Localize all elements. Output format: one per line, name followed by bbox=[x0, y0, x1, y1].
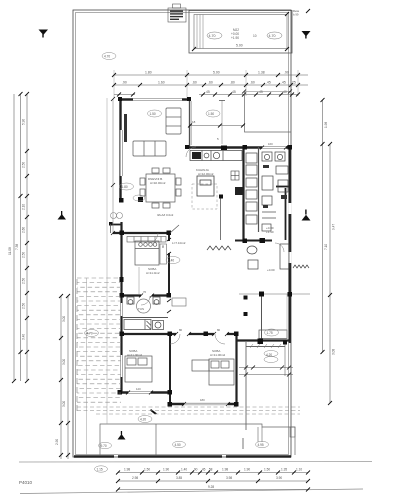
survey marker right-mid bbox=[302, 210, 311, 221]
svg-text:P4010: P4010 bbox=[19, 480, 33, 485]
svg-text:1.60: 1.60 bbox=[158, 81, 165, 85]
svg-text:A=11.0m2: A=11.0m2 bbox=[146, 271, 160, 275]
carport legend box bbox=[168, 4, 186, 22]
svg-text:3.40: 3.40 bbox=[22, 334, 26, 340]
pantry shelves bbox=[246, 153, 257, 224]
living left wall bbox=[119, 98, 121, 202]
svg-text:2.50: 2.50 bbox=[22, 162, 26, 168]
left lower wall bbox=[120, 222, 122, 393]
bottom margin line bbox=[20, 489, 363, 494]
carport corner ticks bbox=[192, 9, 310, 51]
svg-text:1.40: 1.40 bbox=[181, 468, 187, 472]
svg-text:1.90: 1.90 bbox=[163, 468, 169, 472]
west wall pier bbox=[120, 277, 124, 282]
bed1 door leaf bbox=[170, 225, 179, 233]
right room pillars bbox=[244, 296, 248, 300]
svg-text:1.75: 1.75 bbox=[267, 331, 273, 335]
svg-text:160: 160 bbox=[268, 142, 273, 146]
svg-text:3.98: 3.98 bbox=[226, 476, 232, 480]
bed3 right wall bbox=[235, 334, 237, 405]
svg-text:IZLAZ 0.0x2: IZLAZ 0.0x2 bbox=[157, 213, 174, 217]
svg-text:1.98: 1.98 bbox=[124, 468, 130, 472]
right room inner line bbox=[286, 294, 288, 340]
house right wall bbox=[289, 147, 291, 343]
svg-text:1.80: 1.80 bbox=[122, 185, 128, 189]
svg-text:9.70: 9.70 bbox=[101, 444, 107, 448]
svg-text:.45: .45 bbox=[205, 90, 210, 94]
svg-text:.45: .45 bbox=[258, 90, 263, 94]
oval labels scattered bbox=[85, 53, 279, 473]
svg-text:7.10: 7.10 bbox=[324, 244, 328, 250]
right dim column bbox=[323, 100, 331, 403]
svg-text:A=12.00m2: A=12.00m2 bbox=[198, 172, 214, 176]
survey marker top-left bbox=[39, 30, 49, 38]
bed3 bbox=[209, 359, 234, 385]
svg-text:1.98: 1.98 bbox=[222, 468, 228, 472]
svg-text:L=7.10m2: L=7.10m2 bbox=[172, 241, 186, 245]
niche rect top right room bbox=[259, 330, 287, 339]
svg-text:A=11.00m2: A=11.00m2 bbox=[127, 353, 143, 357]
svg-text:3.85: 3.85 bbox=[176, 476, 182, 480]
wall bed2 top bbox=[121, 333, 237, 335]
svg-text:4.95: 4.95 bbox=[258, 443, 264, 447]
top dimension line 1 bbox=[114, 75, 308, 95]
bed2 right wall bbox=[169, 334, 171, 405]
thin line corridor bbox=[239, 293, 310, 295]
living porch box bbox=[110, 224, 122, 226]
kitchen counter bbox=[190, 151, 242, 161]
reta box top right bbox=[293, 9, 299, 17]
svg-text:5.00: 5.00 bbox=[213, 71, 220, 75]
pantry dashed area bbox=[192, 184, 217, 209]
svg-text:.45: .45 bbox=[201, 468, 206, 472]
carport center text bbox=[231, 28, 257, 40]
entry court dim line bbox=[190, 125, 244, 127]
entry gate line bbox=[221, 100, 223, 144]
wall pillars bbox=[118, 97, 293, 407]
courtyard dashed border bbox=[76, 279, 78, 412]
svg-text:80: 80 bbox=[179, 328, 183, 332]
spine wall vertical bbox=[168, 232, 170, 296]
svg-text:3.00: 3.00 bbox=[62, 316, 66, 322]
pantry left wall bbox=[242, 147, 244, 242]
svg-text:1.50: 1.50 bbox=[144, 468, 150, 472]
house: living top wall bbox=[119, 98, 190, 101]
svg-text:+1.90: +1.90 bbox=[266, 230, 274, 234]
top dim ticks row3 bbox=[117, 93, 300, 97]
svg-text:.40: .40 bbox=[282, 90, 287, 94]
svg-text:9.47: 9.47 bbox=[332, 224, 336, 230]
fence zigzag right bbox=[293, 265, 309, 268]
wall bed1 top bbox=[113, 232, 170, 234]
small bath wall vertical bbox=[285, 188, 287, 240]
bed2 bottom wall bbox=[119, 391, 170, 393]
svg-text:2.50: 2.50 bbox=[22, 252, 26, 258]
bed2 bbox=[125, 356, 152, 382]
bottom boundary thick band bbox=[74, 455, 291, 457]
utility dark bits bbox=[263, 165, 287, 208]
left inner dim column bbox=[61, 296, 68, 459]
door arcs bbox=[141, 147, 284, 344]
entry pillar bbox=[221, 146, 227, 151]
svg-text:1.90: 1.90 bbox=[244, 468, 250, 472]
svg-text:1.98: 1.98 bbox=[324, 122, 328, 128]
svg-text:1.35: 1.35 bbox=[281, 468, 287, 472]
svg-text:A=11.00m2: A=11.00m2 bbox=[210, 353, 226, 357]
svg-text:9.28: 9.28 bbox=[208, 485, 214, 489]
hall divider line bbox=[220, 196, 222, 240]
svg-text:.25: .25 bbox=[291, 81, 296, 85]
svg-text:1.50: 1.50 bbox=[150, 112, 156, 116]
living right wall upper bbox=[189, 98, 191, 147]
window band hatch bbox=[250, 344, 281, 348]
wall bath top bbox=[121, 294, 169, 296]
survey marker bottom-mid bbox=[118, 431, 126, 440]
top dim ticks row2 bbox=[112, 83, 300, 87]
bed1 wardrobe vertical bbox=[160, 244, 167, 264]
fence line right lower bbox=[245, 342, 247, 430]
svg-text:3.90: 3.90 bbox=[276, 476, 282, 480]
kitchen hob grid bbox=[231, 171, 239, 180]
svg-text:10: 10 bbox=[253, 34, 257, 38]
bath divider bbox=[122, 317, 168, 319]
right mid dim line bbox=[239, 368, 293, 375]
pantry right wall bbox=[258, 147, 260, 232]
svg-text:18: 18 bbox=[192, 120, 196, 124]
svg-text:TUS: TUS bbox=[138, 307, 144, 311]
svg-text:+1.90: +1.90 bbox=[231, 36, 239, 40]
kitchen stove dark bbox=[192, 152, 201, 159]
interior door dim speckles bbox=[126, 146, 288, 407]
svg-text:.60: .60 bbox=[192, 81, 197, 85]
front porch rect bbox=[100, 424, 295, 455]
hall node bbox=[219, 195, 223, 199]
hall shoe cabinet bbox=[172, 298, 186, 306]
bed3 bottom wall bbox=[169, 403, 237, 405]
bottom dim chain bbox=[118, 473, 308, 490]
svg-text:.90: .90 bbox=[284, 71, 289, 75]
top dim ticks row1 bbox=[112, 73, 300, 77]
dining table bbox=[140, 168, 181, 208]
interior dim ticks small bbox=[111, 90, 292, 236]
dashed courtyard lines bbox=[77, 278, 121, 402]
svg-text:b.99: b.99 bbox=[293, 13, 299, 17]
svg-text:11.08: 11.08 bbox=[8, 247, 12, 255]
carport inner rect bbox=[194, 15, 287, 49]
left dim numbers rotated bbox=[8, 119, 26, 340]
svg-text:.58: .58 bbox=[208, 468, 213, 472]
svg-text:4.20: 4.20 bbox=[140, 418, 146, 422]
svg-text:2.10: 2.10 bbox=[22, 204, 26, 210]
svg-text:4.20: 4.20 bbox=[266, 353, 272, 357]
svg-text:1.10: 1.10 bbox=[296, 468, 302, 472]
svg-text:1.50: 1.50 bbox=[264, 468, 270, 472]
stairs zigzag bbox=[207, 246, 231, 250]
bed3 desk bbox=[192, 360, 209, 371]
property boundary inner bbox=[76, 13, 289, 455]
svg-text:70: 70 bbox=[143, 290, 147, 294]
svg-text:A=32.00m2: A=32.00m2 bbox=[150, 181, 166, 185]
svg-text:4.70: 4.70 bbox=[209, 34, 216, 38]
bed1 bbox=[135, 241, 159, 265]
left dim column lines bbox=[14, 94, 27, 381]
top dim numbers bbox=[122, 71, 296, 94]
bath2 fixtures bbox=[247, 244, 289, 269]
room labels tiny text bbox=[127, 168, 275, 357]
svg-text:5.00: 5.00 bbox=[236, 44, 243, 48]
svg-text:5: 5 bbox=[217, 137, 219, 141]
right section window band bbox=[246, 346, 285, 348]
svg-text:180: 180 bbox=[200, 398, 205, 402]
bed1 closet row bbox=[127, 237, 166, 243]
svg-text:4.70: 4.70 bbox=[104, 55, 110, 59]
svg-text:1.15: 1.15 bbox=[97, 468, 103, 472]
corridor vertical wall bbox=[261, 294, 263, 341]
svg-text:3.00: 3.00 bbox=[62, 401, 66, 407]
svg-text:.80: .80 bbox=[230, 81, 235, 85]
svg-text:2.90: 2.90 bbox=[55, 439, 59, 445]
right section lower wall bbox=[236, 339, 290, 341]
hall wall right section bbox=[235, 240, 272, 242]
hall dark box bbox=[235, 187, 244, 195]
svg-text:3.08: 3.08 bbox=[332, 349, 336, 355]
svg-text:3.00: 3.00 bbox=[62, 359, 66, 365]
setback line left bbox=[106, 98, 108, 424]
svg-text:2.50: 2.50 bbox=[22, 278, 26, 284]
bed1 rug line bbox=[138, 267, 140, 294]
porch step detail bbox=[258, 427, 295, 442]
svg-text:2.60: 2.60 bbox=[22, 227, 26, 233]
bath fixtures bbox=[124, 297, 164, 330]
svg-text:.60: .60 bbox=[250, 81, 255, 85]
living window strip bbox=[124, 114, 127, 142]
svg-text:.45: .45 bbox=[231, 90, 236, 94]
terrace outline top right bbox=[245, 92, 292, 133]
survey marker left-mid bbox=[58, 211, 67, 220]
bottom dashed path lines bbox=[77, 407, 300, 414]
kitchen island bbox=[197, 176, 214, 196]
kitchen top wall bbox=[187, 146, 291, 149]
street line bottom bbox=[19, 461, 372, 464]
carport left lines bbox=[197, 15, 203, 49]
svg-text:80: 80 bbox=[161, 244, 165, 248]
small bath wall top right bbox=[276, 186, 290, 188]
svg-text:.60: .60 bbox=[208, 81, 213, 85]
svg-text:80: 80 bbox=[217, 328, 221, 332]
misc interior thin lines bbox=[113, 92, 291, 234]
svg-text:4.70: 4.70 bbox=[87, 332, 93, 336]
fence line right lower 2 bbox=[284, 342, 286, 376]
svg-text:4.70: 4.70 bbox=[269, 34, 276, 38]
svg-text:7.38: 7.38 bbox=[15, 244, 19, 250]
svg-text:1.38: 1.38 bbox=[258, 71, 265, 75]
svg-text:5.90: 5.90 bbox=[22, 119, 26, 125]
carport oval label left bbox=[207, 32, 222, 39]
svg-text:120: 120 bbox=[136, 387, 141, 391]
svg-text:1.50: 1.50 bbox=[208, 112, 214, 116]
property boundary outer bbox=[73, 10, 291, 457]
svg-text:2.98: 2.98 bbox=[132, 476, 138, 480]
utility fixtures right bbox=[262, 152, 288, 231]
living sofa bbox=[133, 108, 181, 156]
svg-text:.90: .90 bbox=[122, 81, 127, 85]
left dim ticks bbox=[12, 92, 29, 383]
courtyard path edge line bbox=[86, 278, 88, 455]
svg-text:1.40: 1.40 bbox=[168, 259, 174, 263]
pen marker bottom bbox=[150, 409, 157, 415]
svg-text:.45: .45 bbox=[281, 81, 286, 85]
double circle symbol left bbox=[111, 213, 123, 219]
svg-text:2.50: 2.50 bbox=[22, 303, 26, 309]
survey marker top-right bbox=[302, 31, 311, 39]
svg-text:4.50: 4.50 bbox=[175, 443, 181, 447]
svg-text:1.80: 1.80 bbox=[145, 71, 152, 75]
entry vertical line bbox=[155, 424, 157, 455]
svg-text:.45: .45 bbox=[266, 81, 271, 85]
top dim extension verticals bbox=[114, 70, 298, 98]
window gaps (white overlays with glazing) bbox=[122, 100, 290, 405]
svg-text:+0.00: +0.00 bbox=[267, 268, 275, 272]
svg-text:.90: .90 bbox=[193, 468, 198, 472]
carport outer rect bbox=[189, 11, 292, 54]
carport oval label right bbox=[267, 32, 282, 39]
node corridor bbox=[259, 292, 264, 297]
